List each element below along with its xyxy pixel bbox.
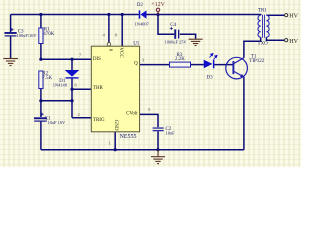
svg-text:VCC: VCC [118, 47, 123, 58]
svg-text:TIP122: TIP122 [249, 59, 264, 64]
svg-text:100uF/16V: 100uF/16V [17, 33, 38, 38]
svg-text:2.2K: 2.2K [175, 57, 185, 62]
svg-text:HV: HV [289, 13, 298, 19]
svg-text:1N4148: 1N4148 [53, 83, 68, 88]
svg-text:7.5K: 7.5K [42, 76, 52, 81]
svg-text:THR: THR [93, 86, 104, 91]
svg-text:10nF: 10nF [166, 130, 176, 135]
svg-text:R: R [108, 49, 113, 52]
svg-text:D3: D3 [207, 76, 214, 81]
svg-text:TR1: TR1 [258, 9, 267, 14]
svg-text:HV: HV [289, 39, 298, 45]
svg-text:NE555: NE555 [120, 134, 137, 140]
svg-text:GND: GND [113, 120, 118, 131]
svg-text:470K: 470K [43, 32, 55, 37]
svg-text:TRIG: TRIG [93, 118, 105, 123]
svg-text:C4: C4 [170, 23, 176, 28]
svg-text:D2: D2 [137, 3, 144, 8]
svg-text:10uF 16V: 10uF 16V [48, 120, 67, 125]
svg-text:CVolt: CVolt [126, 111, 138, 116]
svg-text:U1: U1 [133, 42, 140, 47]
svg-text:1000uF 25V: 1000uF 25V [165, 39, 188, 44]
svg-text:Q: Q [134, 62, 138, 67]
svg-text:+12V: +12V [151, 2, 165, 8]
svg-text:DIS: DIS [93, 57, 101, 62]
svg-text:1N4007: 1N4007 [135, 22, 150, 27]
svg-text:TXO: TXO [258, 42, 269, 47]
